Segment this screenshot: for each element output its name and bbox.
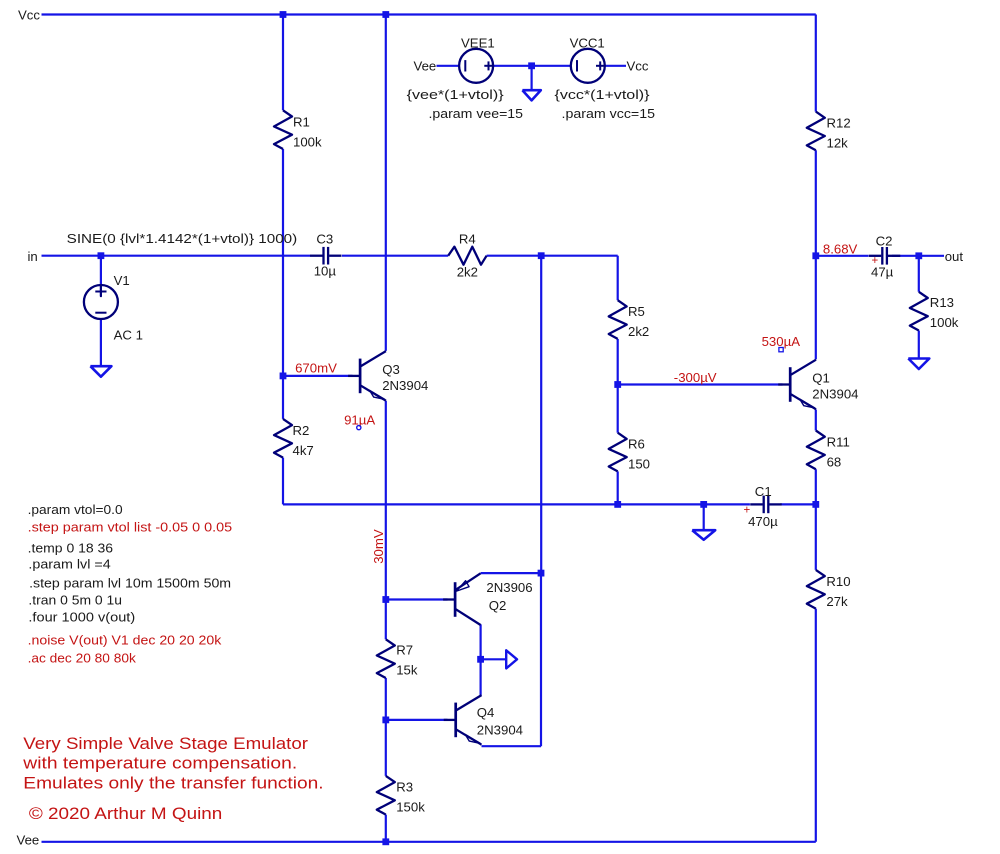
svg-text:15k: 15k: [396, 662, 418, 677]
junction 8.68V node: [812, 252, 819, 259]
resistor R12: [807, 112, 825, 151]
svg-text:.param vee=15: .param vee=15: [429, 106, 524, 121]
resistor R7: [377, 639, 395, 678]
svg-text:+: +: [744, 505, 751, 517]
svg-text:.param vcc=15: .param vcc=15: [562, 106, 656, 121]
svg-text:.step param vtol list -0.05 0: .step param vtol list -0.05 0 0.05: [28, 519, 233, 534]
svg-text:.step param lvl 10m 1500m 50m: .step param lvl 10m 1500m 50m: [29, 575, 231, 590]
svg-text:12k: 12k: [827, 136, 849, 151]
wire Q1 collector vertical: [815, 256, 817, 360]
wire R6 branch: [617, 385, 619, 433]
wire C2 row: [816, 255, 869, 257]
wire R12 branch: [815, 15, 817, 112]
wire Q3 emitter vertical: [385, 401, 387, 600]
svg-text:VCC1: VCC1: [570, 36, 605, 51]
svg-text:R1: R1: [293, 114, 310, 129]
ground below VEE/VCC: [522, 90, 540, 100]
svg-text:{vee*(1+vtol)}: {vee*(1+vtol)}: [407, 87, 505, 102]
transistor Q1 2N3904: [778, 383, 790, 385]
svg-text:2k2: 2k2: [457, 264, 478, 279]
source VCC1: [571, 49, 605, 83]
junction Q1 base node: [614, 381, 621, 388]
wire R3 branch: [385, 720, 387, 776]
svg-text:100k: 100k: [293, 134, 322, 149]
wire mid ground rail: [283, 503, 750, 505]
svg-text:.param vtol=0.0: .param vtol=0.0: [28, 502, 123, 517]
wire gnd stem VEE/VCC: [530, 66, 532, 90]
wire Vee bottom rail: [42, 841, 816, 843]
svg-text:out: out: [945, 249, 964, 264]
wire Q3 collector vertical: [385, 15, 387, 351]
svg-text:R7: R7: [396, 642, 413, 657]
svg-text:2N3904: 2N3904: [477, 722, 523, 737]
wire Q3 base: [283, 375, 353, 377]
wire in row: [42, 255, 311, 257]
wire R5 branch: [617, 256, 619, 301]
ground below R13: [908, 359, 929, 370]
svg-text:670mV: 670mV: [295, 360, 337, 375]
svg-text:+: +: [872, 255, 879, 267]
junction bottom rail R3: [382, 838, 389, 845]
svg-text:.four 1000 v(out): .four 1000 v(out): [28, 610, 135, 625]
wire mid vertical to Q2 emitter: [540, 256, 542, 573]
wire Q2 emitter row: [481, 572, 542, 574]
junction in V1: [98, 252, 105, 259]
wire Q2-Q4 collector link: [480, 624, 482, 695]
svg-text:V1: V1: [114, 273, 130, 288]
svg-text:R10: R10: [826, 574, 850, 589]
svg-text:R5: R5: [628, 304, 645, 319]
resistor R13: [910, 292, 928, 331]
svg-text:10µ: 10µ: [314, 264, 337, 279]
svg-text:Q1: Q1: [812, 370, 830, 385]
svg-text:R11: R11: [827, 435, 850, 450]
junction Q2 base: [382, 596, 389, 603]
svg-text:{vcc*(1+vtol)}: {vcc*(1+vtol)}: [555, 87, 651, 102]
junction emitter link: [538, 570, 545, 577]
svg-text:with temperature compensation.: with temperature compensation.: [22, 754, 297, 773]
junction top rail R1: [280, 11, 287, 18]
svg-text:.tran 0 5m 0 1u: .tran 0 5m 0 1u: [28, 593, 122, 608]
svg-text:C1: C1: [755, 484, 772, 499]
svg-text:100k: 100k: [930, 315, 959, 330]
svg-text:Vcc: Vcc: [627, 58, 649, 73]
wire VEE1 to VCC1: [493, 65, 571, 67]
svg-text:in: in: [28, 249, 38, 264]
svg-text:Vee: Vee: [17, 833, 40, 848]
resistor R3: [377, 776, 395, 815]
svg-text:2N3904: 2N3904: [812, 386, 858, 401]
wire R7 branch: [385, 600, 387, 640]
source V1: [84, 285, 118, 319]
svg-text:68: 68: [827, 455, 842, 470]
resistor R11: [807, 431, 825, 470]
transistor Q2 2N3906: [443, 598, 455, 600]
svg-text:Q3: Q3: [382, 362, 400, 377]
svg-text:2N3904: 2N3904: [382, 378, 428, 393]
wire Q4 base: [386, 719, 448, 721]
svg-text:.param lvl =4: .param lvl =4: [28, 557, 110, 572]
svg-text:Q2: Q2: [489, 598, 507, 613]
wire right emitter vertical: [540, 573, 542, 746]
svg-text:R6: R6: [628, 437, 645, 452]
junction Q4 base: [382, 717, 389, 724]
svg-text:R12: R12: [827, 116, 851, 131]
wire Q1 base: [618, 383, 783, 385]
svg-text:.noise V(out) V1 dec 20 20 20k: .noise V(out) V1 dec 20 20 20k: [28, 633, 222, 648]
svg-text:Q4: Q4: [477, 705, 495, 720]
junction Q3 base: [280, 373, 287, 380]
svg-text:.temp 0 18 36: .temp 0 18 36: [28, 540, 113, 555]
capacitor C3: [310, 255, 323, 257]
svg-text:Vcc: Vcc: [18, 7, 40, 22]
junction VEE-VCC: [528, 62, 535, 69]
resistor R5: [609, 300, 627, 339]
junction top rail Q3: [382, 11, 389, 18]
junction mid rail gnd: [700, 501, 707, 508]
resistor R1: [274, 110, 292, 149]
junction collector link: [477, 656, 484, 663]
svg-text:150: 150: [628, 457, 650, 472]
resistor R2: [274, 419, 292, 458]
resistor R10: [807, 570, 825, 609]
transistor Q3 2N3904: [348, 375, 360, 377]
svg-text:AC 1: AC 1: [114, 327, 143, 342]
svg-text:.ac dec 20 80 80k: .ac dec 20 80 80k: [28, 650, 137, 665]
transistor Q4 2N3904: [444, 719, 456, 721]
svg-text:R2: R2: [293, 423, 310, 438]
svg-text:150k: 150k: [396, 800, 425, 815]
wire V1 bottom to gnd: [100, 319, 102, 366]
wire V1 top: [100, 256, 102, 296]
svg-text:Vee: Vee: [414, 58, 437, 73]
ground mid rail: [692, 530, 715, 540]
wire Q2 base: [386, 598, 448, 600]
svg-text:R4: R4: [459, 232, 476, 247]
svg-text:C3: C3: [316, 232, 333, 247]
svg-text:© 2020 Arthur M Quinn: © 2020 Arthur M Quinn: [29, 804, 222, 823]
svg-text:Very Simple Valve Stage Emulat: Very Simple Valve Stage Emulator: [23, 734, 308, 753]
svg-text:-300µV: -300µV: [674, 370, 717, 385]
svg-text:2k2: 2k2: [628, 324, 649, 339]
wire Q4 emitter row: [482, 745, 542, 747]
junction out node: [915, 252, 922, 259]
capacitor C1: [750, 503, 763, 505]
source VEE1: [459, 49, 493, 83]
junction mid rail R11: [812, 501, 819, 508]
resistor R4: [448, 247, 486, 265]
svg-text:C2: C2: [876, 233, 893, 248]
wire Vcc top rail: [42, 13, 816, 15]
wire R10 branch: [815, 504, 817, 570]
wire gnd stem mid rail: [703, 504, 705, 530]
svg-text:470µ: 470µ: [748, 514, 778, 529]
svg-text:SINE(0 {lvl*1.4142*(1+vtol)} 1: SINE(0 {lvl*1.4142*(1+vtol)} 1000): [67, 231, 298, 246]
svg-text:Emulates only the transfer fun: Emulates only the transfer function.: [23, 773, 323, 792]
wire R1 branch: [282, 15, 284, 111]
wire VEE1 left: [437, 65, 460, 67]
wire VCC1 right: [605, 65, 627, 67]
wire port stub: [481, 658, 506, 660]
wire Q1 emitter to R11: [815, 410, 817, 431]
junction mid rail R6: [614, 501, 621, 508]
resistor R6: [609, 433, 627, 472]
wire R13 branch: [918, 256, 920, 292]
junction in mid: [538, 252, 545, 259]
svg-text:VEE1: VEE1: [461, 36, 495, 51]
svg-text:27k: 27k: [826, 594, 848, 609]
svg-text:8.68V: 8.68V: [823, 241, 858, 256]
svg-text:R3: R3: [396, 780, 413, 795]
capacitor C2: [869, 255, 882, 257]
svg-text:4k7: 4k7: [293, 443, 314, 458]
svg-text:R13: R13: [930, 295, 954, 310]
svg-text:2N3906: 2N3906: [486, 580, 532, 595]
svg-text:30mV: 30mV: [371, 529, 386, 564]
port flag out arrow: [506, 650, 517, 668]
wire R2 branch: [282, 376, 284, 419]
ground below V1: [90, 366, 111, 377]
